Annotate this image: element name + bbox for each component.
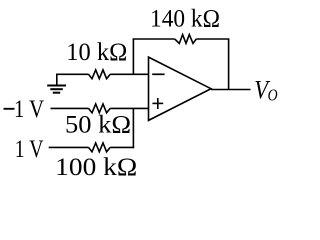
wire 50 kΩ to non-inverting input	[110, 107, 148, 109]
resistor 10 kΩ	[89, 70, 111, 79]
ground	[47, 74, 66, 92]
svg-text:50 kΩ: 50 kΩ	[65, 111, 131, 138]
svg-text:100 kΩ: 100 kΩ	[55, 154, 137, 181]
wire −1 V source to 50 kΩ	[51, 107, 89, 109]
op-amp inverting input marker −	[152, 73, 164, 75]
resistor 100 kΩ	[89, 143, 111, 152]
svg-text:10 kΩ: 10 kΩ	[66, 39, 127, 66]
op-amp	[149, 57, 212, 120]
wire feedback top right segment	[196, 38, 229, 40]
svg-text:1 V: 1 V	[14, 96, 44, 123]
wire feedback left vertical (inverting node to top)	[132, 39, 134, 74]
resistor 50 kΩ	[89, 104, 111, 113]
svg-text:O: O	[268, 86, 278, 105]
label −1 V	[4, 96, 45, 123]
wire 10 kΩ to inverting input	[110, 73, 148, 75]
wire junction vertical (non-inverting node to 100 kΩ)	[132, 108, 134, 148]
svg-text:140 kΩ: 140 kΩ	[150, 5, 220, 32]
op-amp non-inverting input marker +	[152, 98, 163, 109]
resistor 140 kΩ	[175, 35, 197, 44]
wire feedback right vertical (top to output)	[228, 39, 230, 90]
svg-text:1 V: 1 V	[15, 136, 44, 163]
wire output	[211, 89, 251, 91]
wire 1 V source to 100 kΩ	[49, 146, 89, 148]
wire 100 kΩ to junction	[110, 146, 134, 148]
wire ground to 10 kΩ	[56, 73, 89, 75]
wire feedback top left segment	[133, 38, 175, 40]
